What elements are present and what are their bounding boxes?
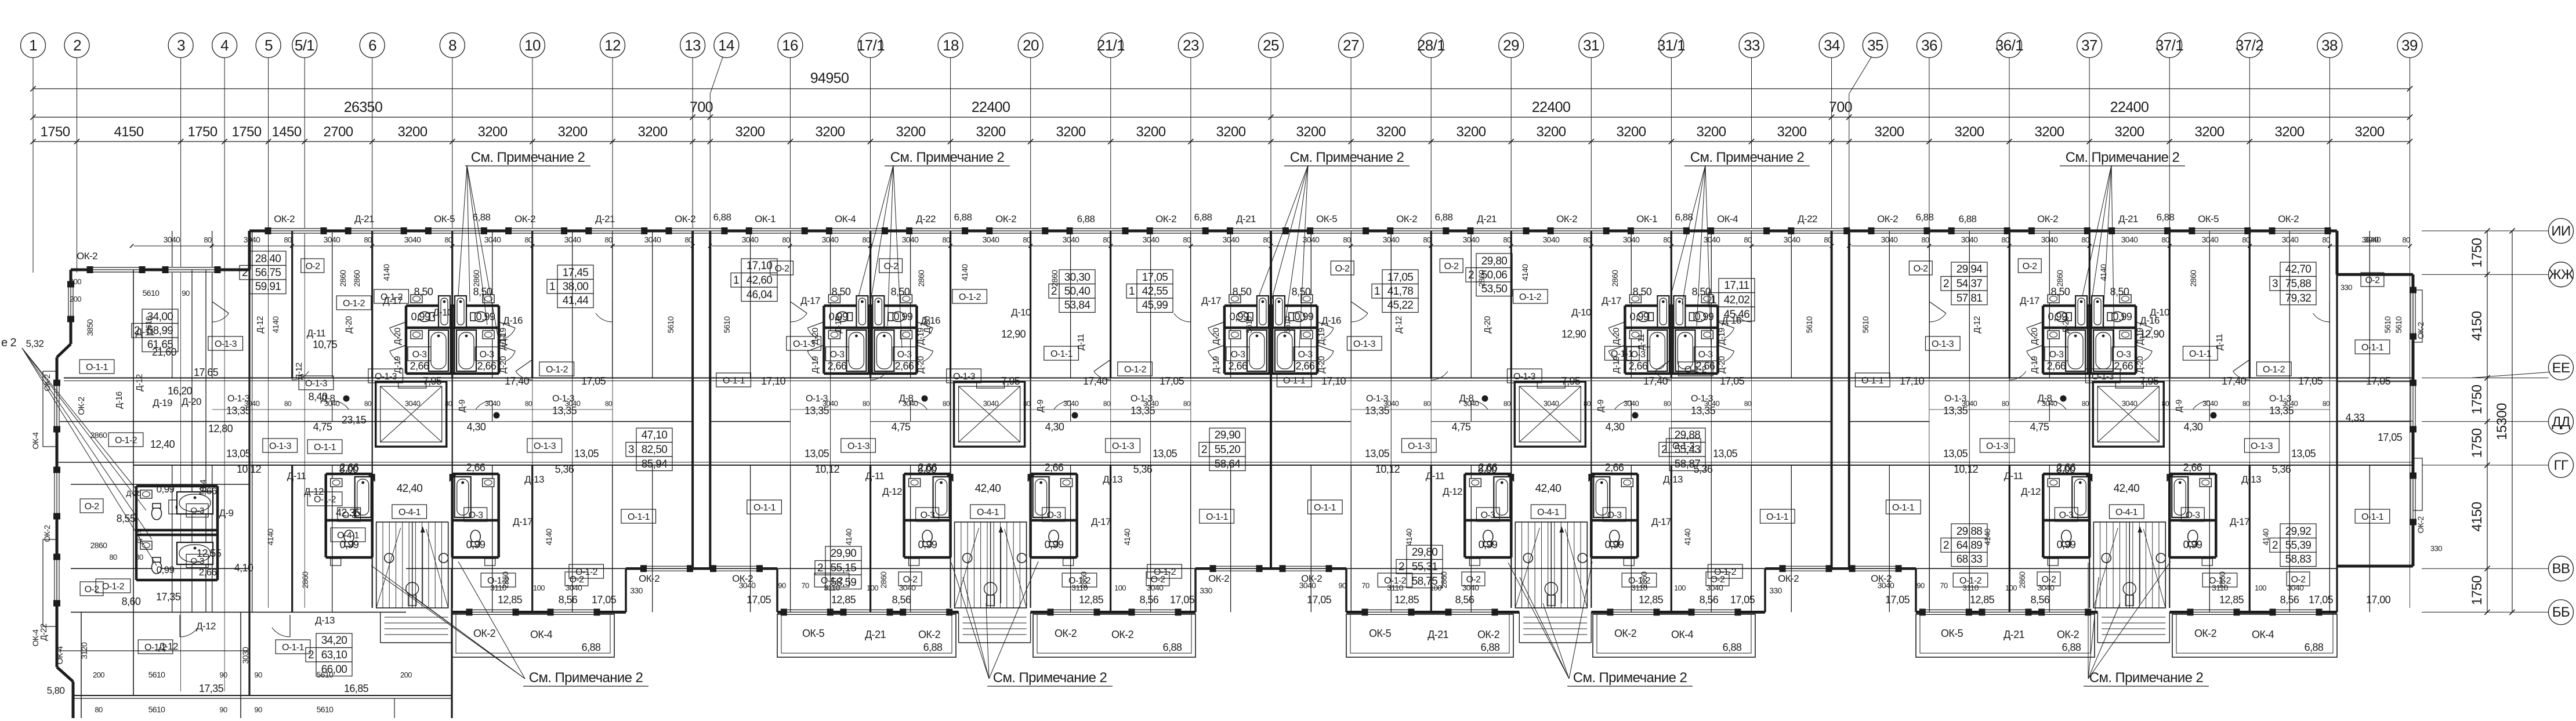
svg-text:3040: 3040 xyxy=(1704,235,1721,244)
svg-text:5,80: 5,80 xyxy=(47,685,65,696)
svg-text:Д-11: Д-11 xyxy=(865,470,885,481)
svg-text:Д-10: Д-10 xyxy=(1011,307,1031,318)
svg-text:О-1-1: О-1-1 xyxy=(2189,349,2212,359)
svg-text:6,88: 6,88 xyxy=(2305,642,2324,653)
svg-text:16: 16 xyxy=(782,37,798,54)
svg-text:Д-17: Д-17 xyxy=(1091,516,1111,527)
svg-text:4140: 4140 xyxy=(1122,528,1132,546)
svg-text:См. Примечание 2: См. Примечание 2 xyxy=(993,670,1107,686)
svg-text:О-1-3: О-1-3 xyxy=(2092,372,2114,382)
svg-text:82,50: 82,50 xyxy=(642,444,668,456)
svg-text:13,35: 13,35 xyxy=(226,405,251,416)
svg-text:13,35: 13,35 xyxy=(1365,405,1390,416)
svg-text:2860: 2860 xyxy=(1610,270,1619,287)
svg-text:Д-9: Д-9 xyxy=(457,400,467,412)
svg-text:См. Примечание 2: См. Примечание 2 xyxy=(1690,150,1805,165)
svg-text:ОК-5: ОК-5 xyxy=(802,628,825,639)
svg-text:ЖЖ: ЖЖ xyxy=(2548,267,2574,282)
svg-text:13,05: 13,05 xyxy=(2291,448,2316,459)
svg-text:ОК-1: ОК-1 xyxy=(755,213,776,224)
svg-text:О-1-2: О-1-2 xyxy=(314,495,336,505)
svg-text:47,10: 47,10 xyxy=(642,429,668,441)
svg-text:1750: 1750 xyxy=(2469,385,2485,414)
svg-text:О-1-1: О-1-1 xyxy=(1611,349,1633,359)
svg-text:О-1-3: О-1-3 xyxy=(269,441,292,451)
svg-text:42,02: 42,02 xyxy=(1724,294,1750,306)
svg-text:1750: 1750 xyxy=(41,124,70,140)
svg-text:29,88: 29,88 xyxy=(1675,429,1701,441)
svg-text:1750: 1750 xyxy=(2469,428,2485,458)
svg-text:80: 80 xyxy=(1423,235,1431,244)
svg-text:О-2: О-2 xyxy=(306,262,321,271)
svg-text:2860: 2860 xyxy=(2017,571,2027,589)
svg-text:3040: 3040 xyxy=(2364,235,2382,244)
svg-text:64,89: 64,89 xyxy=(1957,539,1983,552)
svg-text:330: 330 xyxy=(1769,586,1782,595)
svg-text:Д-12: Д-12 xyxy=(834,316,843,334)
svg-text:3040: 3040 xyxy=(1878,581,1895,590)
svg-text:ОК-4: ОК-4 xyxy=(835,213,856,224)
svg-text:16,85: 16,85 xyxy=(344,683,369,694)
svg-text:О-3: О-3 xyxy=(2186,510,2201,520)
svg-text:42,35: 42,35 xyxy=(336,507,361,519)
svg-text:80: 80 xyxy=(2242,400,2250,408)
svg-text:330: 330 xyxy=(630,586,643,595)
svg-text:Д-9: Д-9 xyxy=(2174,400,2184,412)
svg-text:1: 1 xyxy=(1129,285,1135,298)
svg-text:46,04: 46,04 xyxy=(747,289,773,301)
svg-text:Д-20: Д-20 xyxy=(126,489,141,498)
svg-text:17,05: 17,05 xyxy=(1885,594,1910,606)
svg-text:См. Примечание 2: См. Примечание 2 xyxy=(1573,670,1687,686)
svg-text:О-1-1: О-1-1 xyxy=(1314,503,1336,513)
svg-text:1750: 1750 xyxy=(188,124,218,140)
svg-text:ОК-2: ОК-2 xyxy=(2037,213,2058,224)
svg-text:6,88: 6,88 xyxy=(2062,642,2081,653)
svg-text:О-3: О-3 xyxy=(469,510,484,520)
svg-text:2,66: 2,66 xyxy=(828,360,847,372)
svg-text:3200: 3200 xyxy=(1296,124,1326,140)
svg-text:О-2: О-2 xyxy=(2365,276,2381,285)
svg-text:30,30: 30,30 xyxy=(1064,271,1090,284)
svg-text:5/1: 5/1 xyxy=(295,37,314,54)
svg-text:Д-21: Д-21 xyxy=(1236,213,1256,224)
svg-text:85,94: 85,94 xyxy=(642,458,668,470)
svg-text:О-1-3: О-1-3 xyxy=(2269,394,2292,404)
svg-text:330: 330 xyxy=(1200,586,1212,595)
svg-text:8,50: 8,50 xyxy=(2051,286,2070,298)
svg-text:О-1-3: О-1-3 xyxy=(793,339,816,349)
svg-text:54,37: 54,37 xyxy=(1957,278,1983,290)
svg-text:80: 80 xyxy=(444,235,452,244)
svg-text:2860: 2860 xyxy=(1050,270,1059,287)
svg-text:56,75: 56,75 xyxy=(255,267,281,279)
svg-text:17,05: 17,05 xyxy=(2366,375,2391,387)
svg-text:8,60: 8,60 xyxy=(122,596,141,607)
svg-text:80: 80 xyxy=(1023,235,1031,244)
svg-text:79,32: 79,32 xyxy=(2285,292,2311,305)
svg-text:80: 80 xyxy=(943,400,950,408)
svg-text:4,75: 4,75 xyxy=(892,421,911,433)
svg-text:26350: 26350 xyxy=(344,99,383,115)
svg-text:О-1-2: О-1-2 xyxy=(1959,576,1982,586)
svg-text:17,05: 17,05 xyxy=(1160,375,1184,387)
svg-text:О-1-2: О-1-2 xyxy=(2263,365,2285,375)
svg-text:О-1-2: О-1-2 xyxy=(381,292,403,302)
svg-text:2: 2 xyxy=(1468,269,1474,281)
svg-text:70: 70 xyxy=(1361,581,1369,590)
svg-text:О-3: О-3 xyxy=(1231,350,1246,360)
svg-text:100: 100 xyxy=(2255,584,2266,592)
svg-text:О-2: О-2 xyxy=(884,262,899,271)
svg-text:Д-12: Д-12 xyxy=(2021,486,2041,497)
svg-text:О-1-2: О-1-2 xyxy=(1154,567,1176,577)
svg-text:Д-8: Д-8 xyxy=(899,393,914,404)
svg-text:100: 100 xyxy=(2005,584,2017,592)
svg-text:200: 200 xyxy=(93,671,104,679)
svg-text:17,10: 17,10 xyxy=(1900,375,1925,387)
svg-text:58,59: 58,59 xyxy=(831,577,857,589)
svg-text:О-1-3: О-1-3 xyxy=(806,394,828,404)
svg-text:О-1-1: О-1-1 xyxy=(1283,376,1306,386)
svg-text:22400: 22400 xyxy=(1532,99,1571,115)
svg-text:ОК-2: ОК-2 xyxy=(2194,628,2217,639)
svg-text:О-1-3: О-1-3 xyxy=(1112,441,1135,451)
svg-text:4,75: 4,75 xyxy=(2030,421,2049,433)
svg-text:4,30: 4,30 xyxy=(2184,421,2203,433)
svg-text:3040: 3040 xyxy=(2202,399,2218,408)
svg-text:О-3: О-3 xyxy=(2117,350,2132,360)
svg-text:12,85: 12,85 xyxy=(1639,594,1664,606)
svg-text:Д-19: Д-19 xyxy=(810,356,820,374)
svg-text:75,88: 75,88 xyxy=(2285,278,2311,290)
svg-text:Д-20: Д-20 xyxy=(2030,328,2039,345)
svg-text:42,40: 42,40 xyxy=(2114,483,2140,495)
svg-text:Д-12: Д-12 xyxy=(1972,316,1982,334)
svg-text:3200: 3200 xyxy=(2115,124,2144,140)
svg-text:42,40: 42,40 xyxy=(397,483,423,495)
svg-text:2: 2 xyxy=(817,562,823,574)
svg-text:13,05: 13,05 xyxy=(1365,448,1390,459)
svg-text:7,95: 7,95 xyxy=(2140,375,2159,387)
svg-text:3040: 3040 xyxy=(1784,235,1801,244)
svg-text:О-1-1: О-1-1 xyxy=(753,503,776,513)
svg-text:О-1-2: О-1-2 xyxy=(1714,567,1737,577)
svg-text:2: 2 xyxy=(1201,444,1207,456)
svg-text:8,50: 8,50 xyxy=(891,286,910,298)
svg-text:80: 80 xyxy=(524,235,532,244)
svg-text:90: 90 xyxy=(219,671,227,679)
svg-text:О-1-3: О-1-3 xyxy=(227,394,250,404)
svg-text:О-1-1: О-1-1 xyxy=(628,512,650,522)
svg-text:3040: 3040 xyxy=(405,399,421,408)
svg-text:4: 4 xyxy=(220,37,229,54)
svg-text:700: 700 xyxy=(690,99,713,115)
svg-text:80: 80 xyxy=(684,235,693,244)
svg-text:3040: 3040 xyxy=(2202,235,2219,244)
svg-text:О-1-1: О-1-1 xyxy=(1892,503,1915,513)
svg-text:13: 13 xyxy=(684,37,701,54)
svg-text:36/1: 36/1 xyxy=(1995,37,2023,54)
svg-text:3200: 3200 xyxy=(1056,124,1086,140)
svg-text:Д-12: Д-12 xyxy=(1394,316,1404,334)
svg-text:Д-21: Д-21 xyxy=(354,213,374,224)
svg-text:17,40: 17,40 xyxy=(505,375,530,387)
svg-text:См. Примечание 2: См. Примечание 2 xyxy=(471,150,585,165)
svg-text:39: 39 xyxy=(2401,37,2418,54)
svg-text:3200: 3200 xyxy=(1777,124,1807,140)
svg-text:О-3: О-3 xyxy=(190,506,204,516)
svg-text:2700: 2700 xyxy=(324,124,353,140)
svg-text:3030: 3030 xyxy=(241,647,250,664)
svg-text:Д-17: Д-17 xyxy=(1651,516,1671,527)
svg-text:2860: 2860 xyxy=(1477,270,1486,287)
svg-text:ОК-4: ОК-4 xyxy=(530,629,553,640)
svg-text:5610: 5610 xyxy=(148,705,166,714)
svg-text:2: 2 xyxy=(73,37,81,54)
svg-text:53,84: 53,84 xyxy=(1064,299,1091,311)
svg-text:6,88: 6,88 xyxy=(1481,642,1500,653)
svg-text:1: 1 xyxy=(733,274,739,287)
svg-text:80: 80 xyxy=(1103,400,1111,408)
svg-text:5,36: 5,36 xyxy=(1694,463,1713,475)
svg-text:4140: 4140 xyxy=(1983,528,1992,546)
svg-text:ОК-2: ОК-2 xyxy=(473,628,496,639)
svg-text:Д-21: Д-21 xyxy=(2003,629,2024,640)
svg-text:Д-21: Д-21 xyxy=(1428,629,1448,640)
svg-text:4140: 4140 xyxy=(844,528,853,546)
svg-text:О-3: О-3 xyxy=(897,350,912,360)
svg-text:3040: 3040 xyxy=(1544,399,1559,408)
svg-text:5610: 5610 xyxy=(722,316,731,334)
svg-text:90: 90 xyxy=(254,705,262,714)
svg-text:33: 33 xyxy=(1744,37,1760,54)
svg-text:29,80: 29,80 xyxy=(1481,255,1508,267)
svg-text:8,55: 8,55 xyxy=(117,513,136,524)
svg-text:90: 90 xyxy=(1916,581,1925,590)
svg-text:6,88: 6,88 xyxy=(1723,642,1742,653)
svg-text:23: 23 xyxy=(1183,37,1199,54)
svg-text:42,60: 42,60 xyxy=(747,274,773,287)
svg-text:ОК-2: ОК-2 xyxy=(274,213,295,224)
svg-text:3040: 3040 xyxy=(1543,235,1560,244)
svg-text:Д-17: Д-17 xyxy=(513,516,532,527)
svg-text:Д-10: Д-10 xyxy=(2150,307,2169,318)
svg-text:80: 80 xyxy=(2323,400,2330,408)
svg-text:80: 80 xyxy=(1664,400,1671,408)
svg-text:12,85: 12,85 xyxy=(498,594,523,606)
svg-text:2860: 2860 xyxy=(1079,571,1088,589)
svg-text:О-1-3: О-1-3 xyxy=(534,441,556,451)
svg-text:80: 80 xyxy=(1744,400,1752,408)
svg-text:О-3: О-3 xyxy=(830,350,845,360)
svg-text:0,99: 0,99 xyxy=(1295,311,1314,323)
svg-text:О-4-1: О-4-1 xyxy=(2115,508,2138,517)
svg-text:3200: 3200 xyxy=(2195,124,2224,140)
svg-text:80: 80 xyxy=(204,235,212,244)
svg-text:12,85: 12,85 xyxy=(1394,594,1419,606)
svg-text:3: 3 xyxy=(2272,278,2278,290)
svg-text:О-1-2: О-1-2 xyxy=(1519,292,1542,302)
svg-text:3040: 3040 xyxy=(2121,235,2139,244)
svg-text:29: 29 xyxy=(1503,37,1519,54)
svg-text:80: 80 xyxy=(95,705,103,714)
svg-text:Д-20: Д-20 xyxy=(1483,316,1492,334)
svg-text:0,99: 0,99 xyxy=(1045,539,1064,550)
svg-text:Д-9: Д-9 xyxy=(219,508,234,519)
svg-text:29,90: 29,90 xyxy=(831,548,857,560)
svg-text:6,88: 6,88 xyxy=(1916,212,1934,223)
svg-text:90: 90 xyxy=(778,581,786,590)
svg-text:О-1-3: О-1-3 xyxy=(215,339,237,349)
svg-text:О-1-3: О-1-3 xyxy=(1353,339,1376,349)
svg-text:17,10: 17,10 xyxy=(761,375,786,387)
svg-text:8,56: 8,56 xyxy=(1700,594,1719,606)
svg-text:29,90: 29,90 xyxy=(1215,429,1241,441)
svg-text:ОК-5: ОК-5 xyxy=(2198,213,2219,224)
svg-text:Д-22: Д-22 xyxy=(916,213,936,224)
svg-text:200: 200 xyxy=(70,277,81,286)
svg-text:3200: 3200 xyxy=(2035,124,2064,140)
svg-text:20: 20 xyxy=(1023,37,1039,54)
svg-text:О-1-3: О-1-3 xyxy=(305,379,328,389)
svg-text:О-2: О-2 xyxy=(1466,575,1481,585)
svg-text:ОК-2: ОК-2 xyxy=(1055,628,1077,639)
svg-text:Д-16: Д-16 xyxy=(114,392,124,409)
svg-text:О-3: О-3 xyxy=(2049,350,2064,360)
svg-text:17,40: 17,40 xyxy=(1083,375,1108,387)
svg-text:4,75: 4,75 xyxy=(1452,421,1471,433)
svg-text:8,56: 8,56 xyxy=(1140,594,1159,606)
svg-text:Д-21: Д-21 xyxy=(1477,213,1497,224)
svg-text:28,40: 28,40 xyxy=(255,253,281,265)
svg-text:42,55: 42,55 xyxy=(1142,285,1168,298)
svg-text:ОК-2: ОК-2 xyxy=(1155,213,1176,224)
svg-text:70: 70 xyxy=(1940,581,1948,590)
svg-text:12,90: 12,90 xyxy=(1001,328,1026,340)
svg-text:О-4-1: О-4-1 xyxy=(398,508,421,517)
svg-text:О-1-3: О-1-3 xyxy=(1691,394,1713,404)
svg-text:Д-17: Д-17 xyxy=(2230,516,2249,527)
svg-text:4140: 4140 xyxy=(2099,264,2108,281)
svg-text:ОК-2: ОК-2 xyxy=(77,251,97,262)
svg-text:0,99: 0,99 xyxy=(411,311,430,323)
svg-text:ОК-2: ОК-2 xyxy=(1614,628,1637,639)
svg-text:О-1-1: О-1-1 xyxy=(314,443,336,452)
svg-text:Д-10: Д-10 xyxy=(433,307,452,318)
svg-text:О-1-2: О-1-2 xyxy=(1124,365,1147,375)
svg-text:90: 90 xyxy=(219,705,227,714)
svg-text:14: 14 xyxy=(718,37,734,54)
svg-text:0,99: 0,99 xyxy=(1479,539,1498,550)
svg-text:29,88: 29,88 xyxy=(1957,526,1983,538)
svg-text:45,46: 45,46 xyxy=(1724,309,1750,321)
svg-text:3200: 3200 xyxy=(478,124,508,140)
svg-text:О-3: О-3 xyxy=(2059,510,2074,520)
svg-text:О-3: О-3 xyxy=(1631,350,1646,360)
svg-text:О-1-1: О-1-1 xyxy=(86,363,108,372)
svg-text:80: 80 xyxy=(284,235,292,244)
svg-text:8,50: 8,50 xyxy=(1292,286,1311,298)
svg-text:13,05: 13,05 xyxy=(226,448,251,459)
svg-text:3200: 3200 xyxy=(1537,124,1566,140)
svg-text:3200: 3200 xyxy=(398,124,427,140)
svg-text:3200: 3200 xyxy=(2355,124,2385,140)
svg-text:29,94: 29,94 xyxy=(1957,263,1983,276)
svg-text:ОК-2: ОК-2 xyxy=(1111,629,1134,640)
svg-text:100: 100 xyxy=(867,584,878,592)
svg-text:Д-13: Д-13 xyxy=(1663,474,1683,485)
svg-text:200: 200 xyxy=(70,295,81,303)
svg-text:8,40: 8,40 xyxy=(309,391,328,403)
svg-text:3040: 3040 xyxy=(1299,581,1317,590)
svg-text:5610: 5610 xyxy=(317,705,334,714)
svg-text:О-1-2: О-1-2 xyxy=(102,582,125,592)
svg-text:ОК-4: ОК-4 xyxy=(1717,213,1738,224)
svg-text:Д-12: Д-12 xyxy=(196,621,216,632)
svg-text:4,30: 4,30 xyxy=(1606,421,1625,433)
svg-text:2,66: 2,66 xyxy=(1629,360,1648,372)
svg-text:4140: 4140 xyxy=(1404,528,1414,546)
svg-text:80: 80 xyxy=(605,400,613,408)
svg-text:3200: 3200 xyxy=(1136,124,1166,140)
svg-text:1: 1 xyxy=(1711,294,1716,306)
svg-text:5610: 5610 xyxy=(143,288,160,298)
svg-text:Д-17: Д-17 xyxy=(1602,295,1621,306)
svg-text:59,91: 59,91 xyxy=(255,281,281,293)
svg-text:Д-13: Д-13 xyxy=(1103,474,1122,485)
svg-text:Д-11: Д-11 xyxy=(307,328,326,339)
svg-text:17,05: 17,05 xyxy=(592,594,617,606)
svg-text:3200: 3200 xyxy=(1216,124,1246,140)
svg-text:О-1-2: О-1-2 xyxy=(546,365,568,375)
svg-text:80: 80 xyxy=(1583,235,1591,244)
svg-text:4,10: 4,10 xyxy=(234,562,253,574)
svg-text:80: 80 xyxy=(863,400,870,408)
svg-text:35: 35 xyxy=(1867,37,1883,54)
svg-text:80: 80 xyxy=(135,553,143,561)
svg-text:38,00: 38,00 xyxy=(563,281,589,293)
svg-text:Д-19: Д-19 xyxy=(393,356,403,374)
svg-text:3850: 3850 xyxy=(85,319,95,336)
svg-text:55,20: 55,20 xyxy=(1215,444,1241,456)
svg-text:2,66: 2,66 xyxy=(199,567,217,578)
svg-text:4,30: 4,30 xyxy=(1045,421,1064,433)
svg-text:ОК-5: ОК-5 xyxy=(1941,628,1963,639)
svg-text:10,12: 10,12 xyxy=(815,463,840,475)
svg-text:13,35: 13,35 xyxy=(1131,405,1155,416)
svg-text:68,33: 68,33 xyxy=(1957,553,1983,566)
svg-text:См. Примечание 2: См. Примечание 2 xyxy=(2089,670,2204,686)
svg-text:Д-12: Д-12 xyxy=(1443,486,1462,497)
svg-text:2,66: 2,66 xyxy=(1045,462,1064,473)
svg-text:13,35: 13,35 xyxy=(2269,405,2294,416)
svg-text:50,40: 50,40 xyxy=(1064,285,1090,298)
svg-text:2,66: 2,66 xyxy=(895,360,914,372)
svg-text:7,95: 7,95 xyxy=(423,375,442,387)
svg-text:Д-20: Д-20 xyxy=(393,328,403,345)
svg-text:Д-20: Д-20 xyxy=(916,356,926,374)
svg-text:ОК-2: ОК-2 xyxy=(2416,516,2425,534)
svg-text:13,35: 13,35 xyxy=(805,405,829,416)
svg-text:3200: 3200 xyxy=(1697,124,1726,140)
svg-text:ОК-2: ОК-2 xyxy=(515,213,535,224)
svg-text:90: 90 xyxy=(1338,581,1346,590)
svg-text:58,64: 58,64 xyxy=(1215,458,1241,470)
svg-text:17,05: 17,05 xyxy=(2378,432,2403,443)
svg-text:См. Примечание 2: См. Примечание 2 xyxy=(1290,150,1404,165)
svg-text:3200: 3200 xyxy=(976,124,1006,140)
